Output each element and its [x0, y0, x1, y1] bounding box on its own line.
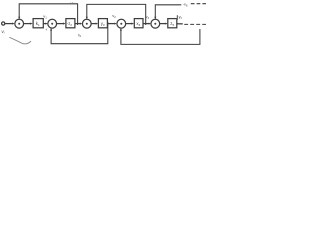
wire S2 to block 2	[56, 23, 65, 25]
faint marks on top loop 1	[70, 2, 74, 3]
top feedback loop 3 from right continuation down into S5	[154, 5, 181, 19]
wire S1 to block 1	[23, 23, 32, 25]
block x4	[134, 19, 143, 28]
svg-text:v2: v2	[112, 13, 116, 19]
top right label -x6	[183, 2, 188, 8]
svg-text:+: +	[45, 28, 47, 32]
wire block1 to S2	[43, 23, 48, 25]
svg-text:v1: v1	[43, 14, 47, 20]
block k1	[33, 19, 43, 28]
summing junction S5	[151, 19, 160, 28]
svg-text:y3: y3	[101, 21, 105, 27]
node label v1	[43, 14, 47, 20]
svg-text:h1: h1	[78, 33, 82, 38]
block -z2	[66, 19, 75, 28]
top feedback loop 2 from node after x4 over to S3	[86, 4, 146, 25]
faint label on bottom loop 1	[78, 33, 82, 38]
wire block2 to S3	[75, 23, 82, 25]
svg-text:k1: k1	[36, 21, 40, 27]
top right dashed continuation	[191, 3, 206, 5]
svg-text:-x6: -x6	[183, 2, 188, 8]
node label v3	[146, 15, 150, 20]
wire S5 to block 5	[160, 23, 168, 25]
block y3	[98, 19, 107, 28]
wire input to S1	[5, 23, 15, 25]
stray curved pen mark bottom left	[9, 37, 31, 44]
svg-text:-z2: -z2	[67, 21, 72, 27]
wire block4 to S5	[143, 23, 151, 25]
output wire solid then dashed continuation	[177, 23, 206, 26]
summing junction S2	[48, 19, 57, 28]
wire block3 to S4	[107, 23, 116, 25]
bottom feedback loop 1 from node after y3 under to S2	[50, 22, 108, 44]
sign mark near S2	[45, 28, 47, 32]
summing junction S3	[82, 19, 91, 28]
input terminal circle	[2, 22, 5, 25]
input label vi	[2, 29, 5, 35]
svg-text:x4: x4	[136, 21, 140, 27]
wire S3 to block 3	[91, 23, 98, 25]
block z5	[168, 19, 177, 28]
summing junction S4	[117, 19, 126, 28]
node label v2	[112, 13, 116, 19]
top feedback loop 1 from node after -z2 over to S1	[18, 4, 77, 25]
svg-text:z5: z5	[170, 21, 174, 27]
svg-text:vi: vi	[2, 29, 5, 35]
bottom feedback loop 2 from output line under to S4	[120, 28, 200, 44]
output label vo	[179, 14, 183, 20]
summing junction S1	[15, 19, 24, 28]
output node tick	[176, 15, 178, 20]
wire S4 to block 4	[126, 23, 135, 25]
svg-text:yo: yo	[179, 14, 183, 20]
svg-text:v3: v3	[146, 15, 150, 20]
